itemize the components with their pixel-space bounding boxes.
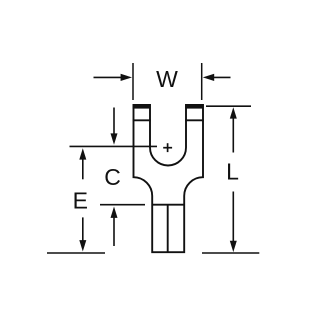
left prong tip cap <box>133 104 151 108</box>
left prong band line <box>133 119 151 121</box>
L dimension bottom extension line <box>202 252 259 254</box>
W dimension extension line right <box>201 63 203 100</box>
C dimension top down arrow <box>111 108 118 145</box>
L dimension up arrow <box>230 107 237 152</box>
svg-text:L: L <box>226 159 239 185</box>
E dimension bottom extension line <box>47 252 105 254</box>
W dimension right arrow <box>203 74 231 81</box>
C dimension bottom up arrow <box>111 207 118 247</box>
L dimension down arrow <box>230 192 237 253</box>
centerline through slot center <box>70 145 158 147</box>
svg-text:C: C <box>104 164 121 190</box>
svg-text:E: E <box>73 187 88 213</box>
barrel seam line <box>167 205 169 253</box>
E dimension down arrow <box>79 217 86 251</box>
L dimension top extension line <box>206 105 251 107</box>
W dimension extension line left <box>132 63 134 100</box>
W dimension left arrow <box>94 74 133 81</box>
plus mark at slot center <box>163 143 172 152</box>
fork terminal body outline <box>134 105 204 252</box>
svg-text:W: W <box>156 66 178 92</box>
right prong band line <box>185 119 204 121</box>
barrel top edge <box>152 204 184 206</box>
E dimension up arrow <box>79 148 86 179</box>
right prong tip cap <box>185 104 203 108</box>
C dimension bottom extension line <box>100 204 145 206</box>
